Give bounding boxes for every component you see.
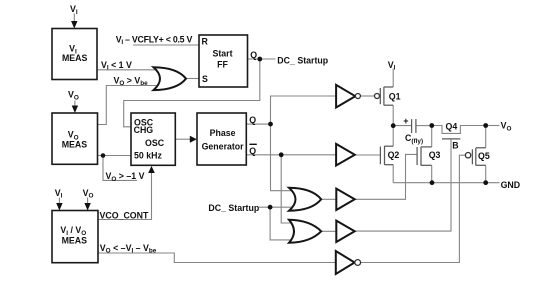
svg-text:DC_ Startup: DC_ Startup: [277, 56, 328, 66]
svg-text:CHG: CHG: [134, 125, 154, 135]
svg-text:OSC: OSC: [145, 138, 165, 148]
svg-text:MEAS: MEAS: [62, 53, 88, 63]
svg-text:B: B: [452, 140, 458, 150]
svg-text:Q1: Q1: [389, 91, 401, 101]
svg-text:MEAS: MEAS: [62, 235, 88, 245]
svg-text:Q: Q: [249, 146, 256, 156]
svg-text:DC_ Startup: DC_ Startup: [208, 203, 259, 213]
svg-text:Generator: Generator: [202, 141, 245, 151]
svg-text:S: S: [202, 74, 208, 84]
svg-text:+: +: [403, 116, 408, 126]
svg-text:VCO_CONT: VCO_CONT: [100, 210, 150, 220]
svg-text:Q2: Q2: [388, 150, 400, 160]
svg-text:Q: Q: [250, 50, 257, 60]
svg-text:Phase: Phase: [210, 128, 236, 138]
svg-text:MEAS: MEAS: [62, 140, 88, 150]
svg-text:Start: Start: [212, 49, 232, 59]
svg-text:50 kHz: 50 kHz: [134, 151, 162, 161]
svg-text:Q: Q: [249, 115, 256, 125]
svg-text:Q3: Q3: [429, 150, 441, 160]
svg-text:GND: GND: [501, 180, 521, 190]
svg-text:R: R: [202, 36, 209, 46]
svg-text:Q5: Q5: [478, 151, 490, 161]
svg-text:Q4: Q4: [446, 121, 458, 131]
svg-text:FF: FF: [217, 59, 228, 69]
